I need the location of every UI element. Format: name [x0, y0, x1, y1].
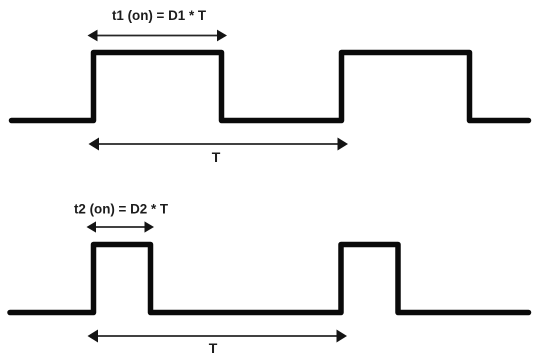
svg-text:t1 (on) = D1 * T: t1 (on) = D1 * T: [112, 8, 207, 23]
svg-text:T: T: [212, 149, 221, 165]
arrow period T (top): [89, 138, 349, 151]
wire waveform 1 (duty cycle D1): [12, 53, 529, 121]
arrow span t2(on): [87, 221, 155, 232]
svg-text:t2 (on) = D2 * T: t2 (on) = D2 * T: [74, 202, 169, 217]
arrow period T (bottom): [88, 330, 348, 343]
arrow span t1(on): [88, 30, 228, 42]
wire waveform 2 (duty cycle D2): [10, 245, 529, 313]
svg-text:T: T: [209, 340, 218, 356]
